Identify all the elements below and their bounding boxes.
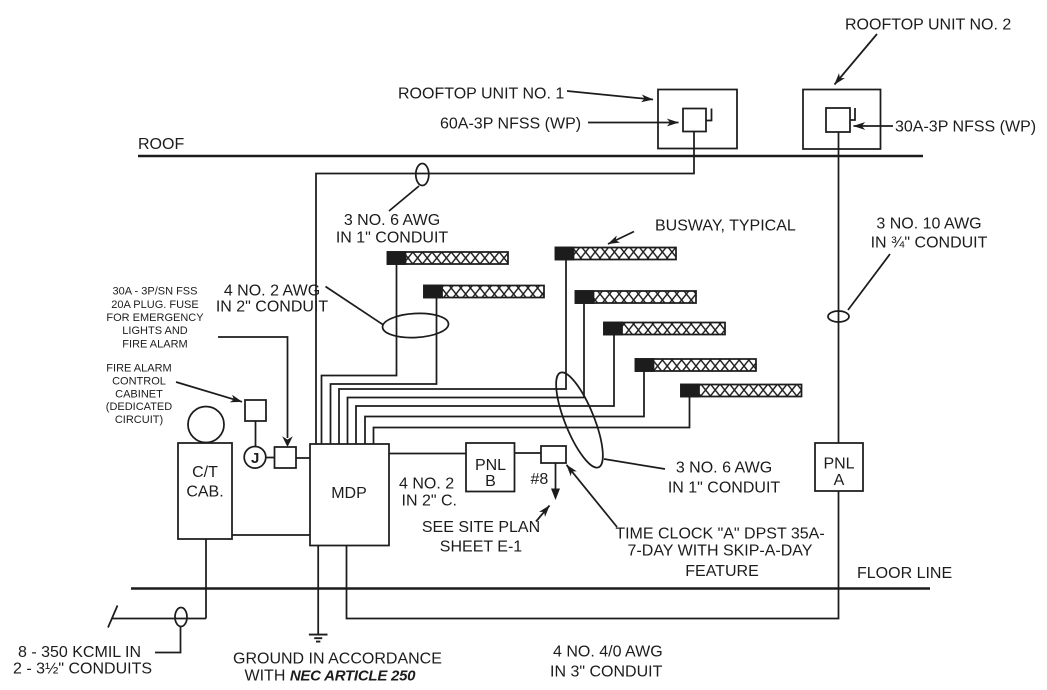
svg-text:PNL: PNL [475, 457, 506, 474]
svg-text:IN 1" CONDUIT: IN 1" CONDUIT [336, 230, 449, 247]
svg-text:GROUND IN ACCORDANCE: GROUND IN ACCORDANCE [233, 651, 442, 668]
disconnect switch 60A-3P NFSS inside unit 1 [683, 109, 712, 132]
svg-text:3 NO. 10 AWG: 3 NO. 10 AWG [876, 216, 981, 233]
label 3 NO. 10 AWG IN 3/4" CONDUIT [871, 216, 988, 252]
svg-text:IN ¾" CONDUIT: IN ¾" CONDUIT [871, 235, 988, 252]
conduit callout ellipse 3 No.6 AWG over busway risers (large slanted) [547, 367, 612, 472]
leader from service ellipse to 8-350 KCMIL label [155, 627, 181, 653]
conduit callout ellipse on service lateral [175, 608, 187, 627]
wire: J circle to junction box [266, 457, 275, 459]
wire: junction box to MDP [296, 457, 310, 459]
label 8-350 KCMIL IN 2-3.5" CONDUITS [13, 644, 152, 678]
busway 2 [424, 286, 544, 298]
junction circle J [244, 447, 266, 469]
ground symbol [309, 635, 328, 642]
conduit callout ellipse on rooftop unit 2 drop [828, 311, 849, 322]
rooftop unit no. 2 enclosure [803, 90, 881, 150]
leader from large ellipse to right 3 No.6 AWG label [604, 459, 665, 469]
busway 4 riser wire to MDP [348, 303, 585, 444]
leader arrow TIME CLOCK label to time clock box [567, 465, 618, 527]
busway 1 riser wire to MDP [322, 264, 397, 444]
label 4 NO. 2 AWG IN 2" CONDUIT [216, 283, 329, 316]
wire: FACP square to junction circle J [255, 421, 257, 447]
leader from 4 No.2 AWG label to ellipse [326, 287, 384, 326]
label TIME CLOCK A DPST [615, 526, 824, 581]
svg-text:BUSWAY, TYPICAL: BUSWAY, TYPICAL [655, 218, 796, 235]
svg-text:FEATURE: FEATURE [685, 563, 758, 580]
roof line [138, 155, 923, 157]
svg-text:CIRCUIT): CIRCUIT) [115, 414, 163, 426]
svg-text:IN 2" C.: IN 2" C. [402, 493, 457, 510]
meter circle above C/T cabinet [188, 407, 224, 443]
fire alarm control cabinet square [245, 400, 266, 421]
busway 7 [681, 385, 802, 397]
label FLOOR LINE [857, 565, 952, 582]
svg-text:CONTROL: CONTROL [112, 376, 166, 388]
leader from 3 No.10 AWG label to callout ellipse [848, 254, 890, 310]
svg-text:FLOOR LINE: FLOOR LINE [857, 565, 952, 582]
MDP main distribution panel [310, 444, 389, 546]
rooftop unit no. 1 enclosure [658, 90, 737, 149]
wire PNL B to time clock [515, 452, 542, 454]
label BUSWAY, TYPICAL [655, 218, 796, 235]
svg-text:ROOF: ROOF [138, 136, 184, 153]
svg-text:B: B [485, 473, 496, 490]
label 3 NO. 6 AWG IN 1" CONDUIT (top) [336, 212, 449, 247]
leader arrow ROOFTOP UNIT NO.1 label to enclosure [567, 91, 653, 100]
svg-text:WITH NEC ARTICLE 250: WITH NEC ARTICLE 250 [245, 668, 417, 685]
label ROOFTOP UNIT NO. 2 [845, 17, 1011, 34]
label PNL B [475, 457, 506, 490]
svg-text:30A - 3P/SN FSS: 30A - 3P/SN FSS [113, 286, 198, 298]
busway 5 [604, 323, 725, 335]
disconnect switch 30A-3P NFSS inside unit 2 [826, 108, 855, 132]
ground conductor from MDP [317, 546, 319, 635]
label J in junction circle [251, 450, 259, 467]
feeder wire MDP to PNL A (4 No.4/0 AWG) [347, 492, 839, 619]
label 4 NO. 2 IN 2" C. [399, 476, 457, 510]
label ROOFTOP UNIT NO. 1 [398, 86, 564, 103]
note FIRE ALARM CONTROL CABINET (DEDICATED CIRCUIT) [106, 363, 172, 426]
busway 1 [388, 252, 509, 264]
label 3 NO. 6 AWG IN 1" CONDUIT (right) [668, 460, 781, 497]
svg-text:TIME CLOCK "A" DPST 35A-: TIME CLOCK "A" DPST 35A- [615, 526, 824, 543]
svg-text:C/T: C/T [192, 464, 218, 481]
leader arrow from FACP label to cabinet square [176, 382, 242, 402]
C/T cabinet [178, 443, 232, 539]
svg-text:MDP: MDP [331, 485, 367, 502]
svg-text:FIRE ALARM: FIRE ALARM [122, 338, 187, 350]
label MDP [331, 485, 367, 502]
junction box square [275, 447, 297, 468]
label GROUND IN ACCORDANCE WITH NEC ARTICLE 250 [233, 651, 442, 685]
svg-text:2 - 3½" CONDUITS: 2 - 3½" CONDUITS [13, 661, 152, 678]
circuit #8 down arrow from time clock [551, 463, 560, 500]
svg-text:4 NO. 4/0 AWG: 4 NO. 4/0 AWG [553, 644, 663, 661]
label C/T CAB. [186, 464, 223, 501]
label PNL A [823, 456, 854, 490]
wire: rooftop unit 2 drop to PNL A (3 No.10 AWG) [838, 132, 840, 443]
label SEE SITE PLAN SHEET E-1 [422, 519, 540, 556]
svg-text:PNL: PNL [823, 456, 854, 473]
busway 6 [636, 359, 757, 371]
leader arrow SEE SITE PLAN to #8 arrow [536, 506, 550, 522]
label 30A-3P NFSS (WP) [895, 119, 1036, 136]
PNL B panelboard [466, 443, 515, 492]
svg-text:30A-3P NFSS (WP): 30A-3P NFSS (WP) [895, 119, 1036, 136]
label ROOF [138, 136, 184, 153]
svg-text:A: A [834, 472, 845, 489]
busway 4 [576, 291, 697, 303]
svg-text:IN 3" CONDUIT: IN 3" CONDUIT [550, 664, 663, 681]
busway 3 [556, 248, 677, 260]
label 60A-3P NFSS (WP) [440, 116, 581, 133]
svg-text:8 - 350 KCMIL IN: 8 - 350 KCMIL IN [18, 644, 141, 661]
leader arrow 60A-3P NFSS label to disconnect 1 [588, 122, 679, 124]
leader arrow ROOFTOP UNIT NO.2 label to enclosure [835, 34, 878, 85]
svg-text:3 NO. 6 AWG: 3 NO. 6 AWG [344, 212, 440, 229]
svg-text:LIGHTS AND: LIGHTS AND [122, 325, 187, 337]
busway 6 riser wire to MDP [365, 371, 644, 444]
conduit callout ellipse on rooftop unit 1 feeder [416, 164, 429, 186]
svg-text:7-DAY WITH SKIP-A-DAY: 7-DAY WITH SKIP-A-DAY [628, 543, 813, 560]
svg-text:60A-3P NFSS (WP): 60A-3P NFSS (WP) [440, 116, 581, 133]
feeder wire MDP to PNL B [389, 453, 466, 455]
svg-text:CABINET: CABINET [115, 388, 163, 400]
wire: C/T cabinet down to service lateral [205, 539, 207, 619]
svg-text:4 NO. 2 AWG: 4 NO. 2 AWG [224, 283, 320, 300]
PNL A panelboard [815, 443, 863, 491]
svg-text:(DEDICATED: (DEDICATED [106, 401, 172, 413]
svg-text:20A PLUG. FUSE: 20A PLUG. FUSE [111, 299, 198, 311]
svg-text:FOR EMERGENCY: FOR EMERGENCY [106, 312, 204, 324]
busway 5 riser wire to MDP [356, 335, 614, 445]
wire: C/T cabinet to MDP [232, 534, 310, 536]
svg-text:J: J [251, 450, 259, 467]
svg-text:ROOFTOP UNIT NO. 1: ROOFTOP UNIT NO. 1 [398, 86, 564, 103]
busway 3 riser wire to MDP [339, 260, 566, 445]
leader arrow for BUSWAY TYPICAL label [608, 232, 634, 245]
floor line [131, 587, 930, 589]
svg-text:3 NO. 6 AWG: 3 NO. 6 AWG [676, 460, 772, 477]
service break slash [108, 606, 118, 628]
svg-text:SEE SITE PLAN: SEE SITE PLAN [422, 519, 540, 536]
svg-text:4 NO. 2: 4 NO. 2 [399, 476, 454, 493]
svg-text:IN 1" CONDUIT: IN 1" CONDUIT [668, 480, 781, 497]
leader wire with arrow from 30A-3P/SN FSS note down to junction box [218, 337, 293, 447]
svg-text:SHEET E-1: SHEET E-1 [440, 539, 523, 556]
time clock A box [541, 446, 566, 463]
label 4 NO. 4/0 AWG IN 3" CONDUIT [550, 644, 663, 681]
wire: MDP to rooftop unit 1 feeder (3 No.6 AWG in 1in conduit) [316, 132, 694, 445]
service lateral wire 8-350 KCMIL [112, 618, 206, 620]
leader from callout ellipse to 3 No.6 AWG label [389, 186, 419, 211]
note 30A-3P/SN FSS 20A PLUG FUSE [106, 286, 204, 351]
svg-text:#8: #8 [531, 471, 549, 488]
conduit callout ellipse 4 No.2 AWG over busway 1-2 risers [382, 312, 449, 339]
svg-text:IN 2" CONDUIT: IN 2" CONDUIT [216, 299, 329, 316]
label #8 [531, 471, 549, 488]
leader arrow 30A-3P NFSS label to disconnect 2 [854, 125, 894, 127]
busway 7 riser wire to MDP [374, 397, 690, 445]
svg-text:CAB.: CAB. [186, 484, 223, 501]
svg-text:FIRE ALARM: FIRE ALARM [106, 363, 171, 375]
svg-text:ROOFTOP UNIT NO. 2: ROOFTOP UNIT NO. 2 [845, 17, 1011, 34]
busway 2 riser wire to MDP [331, 298, 437, 445]
